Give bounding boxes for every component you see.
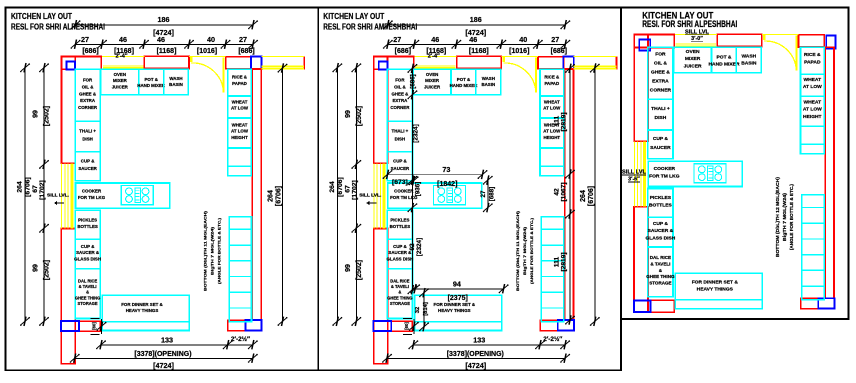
cabinet cup saucer glass P2 <box>387 239 412 269</box>
wall top middle P3 <box>717 34 762 46</box>
svg-text:[673]: [673] <box>392 179 408 186</box>
svg-text:SILL LVL.: SILL LVL. <box>47 193 69 198</box>
svg-text:264: 264 <box>329 181 336 193</box>
wall top-left corner P2 <box>374 56 414 69</box>
svg-text:111: 111 <box>554 116 561 127</box>
cabinet rice papad P3 <box>801 47 825 74</box>
cabinet wheat at low P2 <box>540 96 564 118</box>
svg-text:RESL FOR SHRI ALPESHBHAI: RESL FOR SHRI ALPESHBHAI <box>11 23 105 32</box>
dim 814 P2 <box>423 293 425 327</box>
svg-text:[2502]: [2502] <box>44 106 51 126</box>
svg-text:RICE &PAPAD: RICE &PAPAD <box>232 75 248 86</box>
svg-text:[2375]: [2375] <box>448 295 468 302</box>
svg-text:[3378](OPENING): [3378](OPENING) <box>447 351 504 358</box>
svg-text:27: 27 <box>81 35 89 44</box>
svg-text:[686]: [686] <box>82 48 98 55</box>
cabinet dal rice P3 <box>648 247 673 297</box>
svg-text:27: 27 <box>239 35 247 44</box>
svg-text:264: 264 <box>17 181 24 193</box>
wall right P1 <box>252 69 261 320</box>
door jamb P2 <box>503 57 505 62</box>
window sill terminator P2 <box>615 56 617 69</box>
svg-text:RICE &PAPAD: RICE &PAPAD <box>544 75 560 86</box>
svg-text:WHEATAT LOWHEIGHT: WHEATAT LOWHEIGHT <box>803 99 822 119</box>
panel 1+2 border <box>6 8 622 371</box>
door leaf P1 <box>223 58 225 93</box>
wall top-left corner P3 <box>634 35 674 48</box>
svg-text:[686]: [686] <box>551 48 567 55</box>
svg-text:WASHBASIN: WASHBASIN <box>481 76 495 87</box>
wall right P2 <box>565 69 574 320</box>
shelf stack right P3 <box>802 195 824 300</box>
dim total width 186 P1 <box>76 24 254 26</box>
window bottom-left P2 <box>373 321 391 331</box>
shelf cell A P3 <box>801 126 825 144</box>
svg-text:[3378](OPENING): [3378](OPENING) <box>134 351 191 358</box>
svg-text:RESL FOR SHRI AMPESHBHAI: RESL FOR SHRI AMPESHBHAI <box>323 23 417 32</box>
window bottom-left P1 <box>61 321 79 331</box>
svg-text:BigTH 7 MGL(W24): BigTH 7 MGL(W24) <box>211 226 215 275</box>
dim bottom 4724 line P1 <box>75 358 253 360</box>
wall bottom-right block P2 <box>540 320 558 330</box>
svg-text:73: 73 <box>442 165 450 174</box>
svg-text:[4724]: [4724] <box>153 361 174 370</box>
svg-text:PICKLESBOTTLES: PICKLESBOTTLES <box>77 218 98 229</box>
counter strip bottom P2 <box>415 322 502 331</box>
dim bottom 4724 line P2 <box>387 358 565 360</box>
dim right 264 line P1 <box>282 68 284 321</box>
dim left segments line P1 <box>43 68 45 322</box>
dim opening 133 line P2 <box>413 344 565 346</box>
svg-text:[1702]: [1702] <box>351 180 358 200</box>
dim right segments line P2 <box>569 69 571 321</box>
door swing arc P1 <box>191 63 224 92</box>
svg-text:42: 42 <box>554 188 561 196</box>
svg-text:32: 32 <box>415 307 421 313</box>
counter strip bottom P1 <box>102 322 189 331</box>
door jamb P1 <box>190 57 192 62</box>
svg-text:KITCHEN LAY OUT: KITCHEN LAY OUT <box>323 12 384 21</box>
wall top middle P2 <box>457 56 502 68</box>
platform top line P3 <box>675 34 717 36</box>
platform top line P1 <box>102 55 144 57</box>
dim left total 264 line P2 <box>336 68 338 322</box>
svg-text:[1067]: [1067] <box>561 182 568 201</box>
cabinet wheat at low height P2 <box>540 118 564 148</box>
svg-text:[1168]: [1168] <box>469 48 489 55</box>
svg-text:[2502]: [2502] <box>356 260 363 280</box>
wall bottom ledge P2 <box>391 321 412 331</box>
window top-right P1 <box>251 57 262 69</box>
svg-text:SILL LVL: SILL LVL <box>622 170 647 176</box>
counter strip bottom P3 <box>675 300 762 309</box>
svg-text:46: 46 <box>157 35 165 44</box>
svg-text:BOTTOM (DbL)TH 12 MGL(EACH): BOTTOM (DbL)TH 12 MGL(EACH) <box>775 177 780 258</box>
svg-text:27: 27 <box>480 190 487 197</box>
cabinet wheat at low P1 <box>228 96 252 118</box>
svg-text:WHEATAT LOWHEIGHT: WHEATAT LOWHEIGHT <box>231 122 249 139</box>
svg-text:[1168]: [1168] <box>157 48 177 55</box>
cabinet oven mixer juicer P2 <box>413 69 451 95</box>
door jamb P3 <box>763 35 765 40</box>
cabinet cup saucer glass P1 <box>75 239 100 269</box>
wall left upper P3 <box>634 35 648 142</box>
cabinet oven mixer juicer P3 <box>674 47 712 73</box>
cabinet wash basin P2 <box>476 69 501 95</box>
svg-text:40: 40 <box>207 35 215 44</box>
svg-text:[686]: [686] <box>238 48 254 55</box>
svg-text:[6706]: [6706] <box>337 177 344 197</box>
cabinet cup saucer glass P3 <box>648 217 673 247</box>
svg-text:BOTTOM (DbL)TH 11 MGL(EACH): BOTTOM (DbL)TH 11 MGL(EACH) <box>516 210 520 291</box>
wall left lower P1 <box>61 229 75 364</box>
svg-text:[2324]: [2324] <box>416 238 423 256</box>
window top-right P2 <box>563 57 574 69</box>
cabinet wheat at low height P3 <box>801 96 825 126</box>
hob P1 <box>121 186 153 205</box>
shelf cell B P3 <box>801 144 825 154</box>
svg-text:[686]: [686] <box>410 74 417 88</box>
window bottom-right P1 <box>245 320 261 330</box>
door leaf P2 <box>535 58 537 93</box>
svg-text:[1702]: [1702] <box>39 180 46 200</box>
window bottom-right P3 <box>818 298 834 308</box>
svg-text:OVENMIXERJUICER: OVENMIXERJUICER <box>684 49 702 69</box>
cabinet pot hand mixer P3 <box>712 47 737 73</box>
cabinet wash basin P3 <box>736 47 761 73</box>
svg-text:133: 133 <box>473 335 485 344</box>
panel 3 border <box>621 8 849 320</box>
svg-text:27: 27 <box>393 35 401 44</box>
panel divider <box>317 8 319 371</box>
cooker counter P3 <box>648 161 742 186</box>
window bottom-left P3 <box>634 300 651 312</box>
shelf cell B P2 <box>540 166 564 176</box>
door leaf P3 <box>795 36 797 71</box>
svg-text:WHEATAT LOW: WHEATAT LOW <box>543 99 561 110</box>
cabinet thali dish P2 <box>387 121 412 152</box>
cabinet dinner set P1 <box>102 295 189 322</box>
svg-text:[1842]: [1842] <box>437 181 457 188</box>
svg-text:PICKLESBOTTLES: PICKLESBOTTLES <box>390 218 411 229</box>
svg-text:264: 264 <box>580 190 587 202</box>
svg-text:[60]: [60] <box>404 322 409 330</box>
svg-text:94: 94 <box>453 279 461 288</box>
cabinet oil-ghee corner P3 <box>648 47 673 99</box>
svg-text:[936]: [936] <box>415 182 422 196</box>
wall left upper P1 <box>61 56 75 163</box>
svg-text:RESI. FOR SHRI ALPESHBHAI: RESI. FOR SHRI ALPESHBHAI <box>642 19 737 29</box>
cabinet rice papad P1 <box>228 69 252 96</box>
window sill terminator P1 <box>303 56 305 69</box>
wall bottom-right block P1 <box>228 320 246 330</box>
svg-text:264: 264 <box>268 190 275 202</box>
svg-text:2′-4″: 2′-4″ <box>428 54 440 60</box>
window top-left P2 <box>379 61 388 69</box>
svg-text:111: 111 <box>554 257 561 268</box>
svg-text:99: 99 <box>33 264 40 272</box>
wall left upper P2 <box>374 56 388 163</box>
dim top segments line P2 <box>388 44 566 46</box>
wall left lower P3 <box>634 207 648 313</box>
dim opening 133 line P1 <box>101 344 253 346</box>
cabinet wash basin P1 <box>164 69 189 95</box>
svg-text:[814]: [814] <box>423 302 429 316</box>
cabinet oven mixer juicer P1 <box>101 69 139 95</box>
platform band top wall P3 <box>676 43 717 44</box>
cabinet dal rice P1 <box>75 269 100 319</box>
wall top-left corner P1 <box>61 56 101 69</box>
svg-text:[2819]: [2819] <box>561 112 568 131</box>
svg-text:186: 186 <box>470 15 482 24</box>
svg-text:WASHBASIN: WASHBASIN <box>169 76 183 87</box>
svg-text:[6706]: [6706] <box>588 186 595 206</box>
svg-text:[1016]: [1016] <box>197 48 217 55</box>
svg-text:[4724]: [4724] <box>465 361 486 370</box>
cabinet pickles P2 <box>387 210 412 239</box>
svg-text:FOR DINNER SET &HEAVY THINGS: FOR DINNER SET &HEAVY THINGS <box>121 302 163 313</box>
svg-text:[2324]: [2324] <box>413 124 420 142</box>
cabinet dal rice P2 <box>387 269 412 319</box>
shelf stack right P1 <box>229 217 251 322</box>
platform band top wall P1 <box>103 65 144 66</box>
dim 94 island P2 <box>415 288 504 290</box>
svg-text:3′-6″: 3′-6″ <box>628 177 640 183</box>
svg-text:BigTH 7 MGL(W24): BigTH 7 MGL(W24) <box>523 226 527 275</box>
wall top middle P1 <box>144 56 189 68</box>
cabinet pickles P1 <box>75 210 100 239</box>
window top-right P3 <box>826 35 835 48</box>
cabinet pickles P3 <box>648 189 673 218</box>
window bottom-right P2 <box>558 320 574 330</box>
cabinet cup saucer P3 <box>648 130 673 159</box>
wall bottom ledge P1 <box>79 321 100 331</box>
wall bottom ledge P3 <box>651 300 675 312</box>
platform left strip P1 <box>61 163 63 228</box>
svg-text:27: 27 <box>551 35 559 44</box>
svg-text:WHEATAT LOW: WHEATAT LOW <box>231 99 249 110</box>
wall left lower P2 <box>374 229 388 364</box>
window top-left P1 <box>66 61 75 69</box>
dim internal vertical line P2 <box>411 69 413 290</box>
svg-text:[2819]: [2819] <box>561 252 568 271</box>
cabinet thali dish P3 <box>648 99 673 130</box>
svg-text:SILL LVL.: SILL LVL. <box>359 193 381 198</box>
dim left segments line P2 <box>355 68 357 322</box>
svg-text:[2502]: [2502] <box>356 106 363 126</box>
shelf cell B P1 <box>228 166 252 176</box>
svg-text:[688]: [688] <box>489 187 496 201</box>
svg-text:(ANGLE FOR BOTTLE & ETC.): (ANGLE FOR BOTTLE & ETC.) <box>789 184 794 250</box>
svg-text:67: 67 <box>32 185 39 193</box>
wall top right P1 <box>226 57 252 69</box>
wall bottom-right block P3 <box>801 298 819 308</box>
svg-text:[6706]: [6706] <box>276 186 283 206</box>
shelf cell A P1 <box>228 148 252 166</box>
window sill band P2 <box>574 66 617 67</box>
cabinet dinner set P2 <box>415 295 502 322</box>
svg-text:BigTH 7 MGL(W24): BigTH 7 MGL(W24) <box>782 193 787 242</box>
svg-text:[60]: [60] <box>92 322 97 330</box>
svg-text:46: 46 <box>469 35 477 44</box>
cabinet pot hand mixer P2 <box>451 69 476 95</box>
cabinet pot hand mixer P1 <box>139 69 164 95</box>
dim right 264 line P2 <box>594 68 596 321</box>
svg-text:BOTTOM (DbL)TH 11 MGL(EACH): BOTTOM (DbL)TH 11 MGL(EACH) <box>204 210 208 291</box>
platform left strip P3 <box>633 141 635 206</box>
svg-text:[6706]: [6706] <box>25 177 32 197</box>
hob P3 <box>694 164 726 183</box>
svg-text:46: 46 <box>431 35 439 44</box>
svg-text:2′-4″: 2′-4″ <box>115 54 127 60</box>
cabinet oil-ghee corner P1 <box>75 69 100 121</box>
door swing arc P3 <box>764 41 797 70</box>
wall right P3 <box>825 47 834 298</box>
svg-text:[686]: [686] <box>395 48 411 55</box>
svg-text:2′-2½″: 2′-2½″ <box>543 335 562 343</box>
cabinet thali dish P1 <box>75 121 100 152</box>
dim top segments line P1 <box>76 44 254 46</box>
cabinet wheat at low P3 <box>801 74 825 96</box>
svg-text:46: 46 <box>119 35 127 44</box>
dim total width 186 P2 <box>388 24 566 26</box>
window sill band P1 <box>261 66 304 67</box>
window top-left P3 <box>639 40 650 51</box>
platform top line P2 <box>414 55 456 57</box>
svg-text:40: 40 <box>519 35 527 44</box>
svg-text:99: 99 <box>33 110 40 118</box>
svg-text:(ANGLE FOR BOTTLE & ETC.): (ANGLE FOR BOTTLE & ETC.) <box>530 217 534 284</box>
svg-text:KITCHEN LAY OUT: KITCHEN LAY OUT <box>11 12 72 21</box>
svg-text:[1016]: [1016] <box>509 48 529 55</box>
cooker counter P1 <box>76 183 170 208</box>
dim 73 hob P2 <box>388 174 483 176</box>
cooker counter P2 <box>388 183 482 208</box>
svg-text:[2502]: [2502] <box>44 260 51 280</box>
svg-text:FOR DINNER SET &HEAVY THINGS: FOR DINNER SET &HEAVY THINGS <box>434 302 476 313</box>
dim 27 688 P2 <box>487 180 489 208</box>
cabinet wheat at low height P1 <box>228 118 252 148</box>
platform band top wall P2 <box>415 65 456 66</box>
door swing arc P2 <box>503 63 536 92</box>
wall top right P2 <box>538 57 564 69</box>
svg-text:67: 67 <box>344 185 351 193</box>
svg-text:99: 99 <box>345 264 352 272</box>
shelf cell A P2 <box>540 148 564 166</box>
svg-text:186: 186 <box>158 15 170 24</box>
cabinet cup saucer P1 <box>75 152 100 181</box>
dim left total 264 line P1 <box>24 68 26 322</box>
svg-text:2′-2½″: 2′-2½″ <box>231 335 250 343</box>
svg-text:(ANGLE FOR BOTTLE & ETC.): (ANGLE FOR BOTTLE & ETC.) <box>218 217 222 284</box>
wall top right P3 <box>798 35 824 47</box>
svg-text:133: 133 <box>161 335 173 344</box>
platform left strip P2 <box>373 163 375 228</box>
shelf stack right P2 <box>541 217 563 322</box>
svg-text:99: 99 <box>345 110 352 118</box>
cabinet cup saucer P2 <box>387 152 412 181</box>
hob P2 <box>434 186 466 205</box>
svg-text:92: 92 <box>409 243 416 251</box>
cabinet oil-ghee corner P2 <box>387 69 412 121</box>
cabinet rice papad P2 <box>540 69 564 96</box>
cabinet dinner set P3 <box>675 273 762 300</box>
